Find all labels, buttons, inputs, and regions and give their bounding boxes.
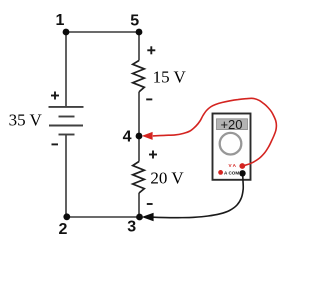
wire bottom rail node2 to node3 (66, 216, 139, 218)
node 3 dot (136, 214, 143, 221)
multimeter dial (220, 133, 242, 155)
node 5 dot (136, 29, 143, 36)
R2 - sign (147, 203, 153, 205)
svg-text:5: 5 (130, 13, 139, 30)
node 4 dot (136, 133, 143, 140)
svg-text:+20: +20 (220, 117, 242, 132)
black probe arrowhead at node 3 (142, 213, 154, 221)
svg-text:35 V: 35 V (9, 110, 43, 129)
node 2 dot (63, 213, 70, 220)
wire R2 bottom to node3 (138, 193, 140, 217)
black probe wire from COM terminal to node 3 (154, 174, 244, 218)
red probe arrowhead at node 4 (142, 132, 153, 140)
multimeter red V terminal dot (239, 163, 245, 169)
multimeter red A terminal dot (218, 170, 223, 175)
battery V1 35V (49, 107, 84, 135)
resistor R2 (20 V) zigzag (133, 162, 145, 194)
multimeter black COM terminal dot (239, 170, 245, 176)
R1 + sign (147, 46, 155, 54)
node 1 dot (63, 29, 70, 36)
wire left rail lower (battery - to node2) (65, 135, 67, 218)
R1 - sign (146, 98, 152, 100)
svg-text:V A: V A (228, 163, 236, 168)
wire left rail upper (node1 to battery +) (65, 32, 67, 107)
svg-text:1: 1 (56, 12, 65, 29)
R2 + sign (149, 151, 157, 159)
battery - sign (52, 143, 59, 145)
resistor R1 (15 V) zigzag (133, 61, 145, 92)
wire right rail node5 to R1 top (138, 32, 140, 61)
battery + sign (51, 92, 59, 100)
svg-text:3: 3 (127, 218, 136, 235)
svg-text:4: 4 (123, 128, 132, 145)
multimeter display (217, 119, 248, 130)
red probe wire from V terminal looping to node 4 (153, 98, 277, 166)
wire top rail node1 to node5 (66, 31, 139, 33)
wire R1 bottom to node4 to R2 top (138, 92, 140, 162)
svg-text:A COM: A COM (224, 171, 239, 176)
svg-text:2: 2 (59, 221, 68, 238)
svg-text:15 V: 15 V (153, 68, 187, 87)
multimeter U1 body (213, 114, 251, 180)
svg-text:20 V: 20 V (150, 168, 184, 187)
